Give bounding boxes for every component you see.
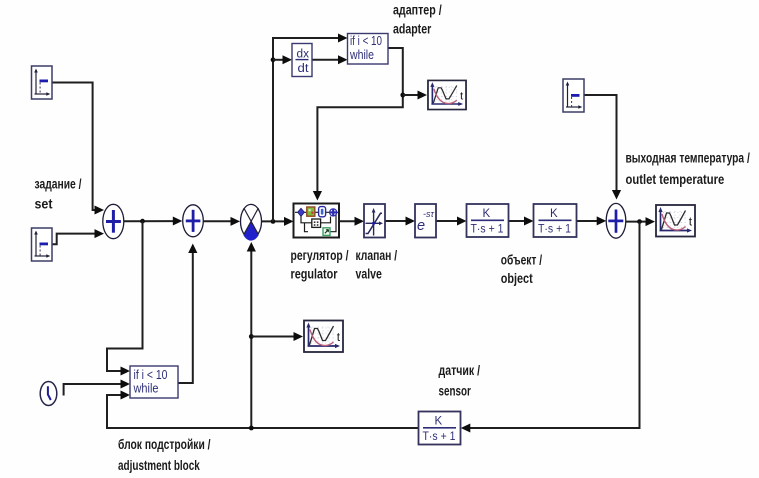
junction dot after multiplier — [271, 219, 276, 224]
svg-text:valve: valve — [356, 267, 383, 282]
wire: valve output to transport delay — [385, 217, 415, 226]
svg-text:задание /: задание / — [35, 177, 82, 192]
svg-text:sensor: sensor — [439, 384, 472, 399]
label: адаптер / adapter — [393, 3, 442, 37]
svg-text:K: K — [483, 208, 491, 220]
adjustment if-block (if i<10 / while) — [130, 366, 178, 398]
transport delay block e^-st — [415, 204, 436, 238]
svg-text:K: K — [550, 208, 558, 220]
right scope — [656, 205, 695, 237]
bottom scope — [304, 321, 343, 353]
wire: branch to dx/dt input — [273, 55, 292, 64]
junction dot at dx/dt branch — [271, 57, 276, 62]
wire: adapter if-block output to top scope and down to regulator top input — [313, 48, 403, 201]
junction dot on S1-S2 wire — [140, 219, 145, 224]
svg-text:выходная температура /: выходная температура / — [626, 151, 750, 166]
wire: riser from multiplier junction to adapter if-block input 1 — [273, 34, 348, 222]
top scope — [428, 80, 466, 109]
svg-text:датчик /: датчик / — [439, 363, 481, 378]
regulator subsystem block U1 — [294, 204, 340, 238]
valve saturation block — [364, 204, 385, 238]
wire: sum S1 output to sum S2 — [124, 217, 182, 226]
wire: branch to top scope — [403, 91, 427, 100]
sum S2 — [183, 205, 204, 237]
svg-text:regulator: regulator — [291, 267, 339, 282]
sensor TF K/(T·s+1) — [419, 412, 461, 445]
svg-text:if i < 10: if i < 10 — [134, 368, 168, 382]
step source 3 (outlet temperature disturbance) — [563, 79, 584, 112]
svg-text:блок подстройки /: блок подстройки / — [118, 437, 211, 452]
svg-text:T·s + 1: T·s + 1 — [423, 431, 456, 443]
wire: step source 1 to sum S1 upper input — [52, 83, 104, 215]
wire: regulator output to valve — [339, 217, 364, 226]
wire: dx/dt output to adapter if-block input 2 — [312, 55, 348, 64]
svg-text:outlet temperature: outlet temperature — [626, 172, 725, 187]
svg-text:if i < 10: if i < 10 — [350, 34, 382, 48]
svg-text:клапан /: клапан / — [356, 248, 398, 263]
svg-text:dx: dx — [297, 49, 310, 61]
wire: transport delay output to object TF1 — [436, 217, 467, 226]
svg-text:K: K — [435, 416, 443, 428]
wire: TF1 output to TF2 — [509, 217, 534, 226]
wire: feedback down from S3 junction to sensor input — [461, 222, 640, 433]
label: объект / object — [501, 253, 543, 287]
svg-text:адаптер /: адаптер / — [393, 3, 442, 18]
sum S3 — [606, 203, 626, 238]
svg-text:T·s + 1: T·s + 1 — [538, 224, 571, 236]
dx/dt derivative block — [292, 44, 312, 77]
wire: clock to adjustment block input 2 — [64, 380, 130, 396]
wire: adjustment block output up to sum S2 bottom input — [178, 244, 197, 384]
wire: step source 2 to sum S1 lower input — [52, 229, 104, 244]
junction dot on adapter output — [400, 93, 405, 98]
label: задание / set — [35, 177, 82, 212]
label: регулятор / regulator — [291, 248, 349, 282]
object TF1 K/(T·s+1) — [467, 204, 509, 237]
junction dot on feedback riser (scope branch) — [249, 334, 254, 339]
svg-text:регулятор /: регулятор / — [291, 248, 349, 263]
label: клапан / valve — [356, 248, 398, 282]
svg-text:-sτ: -sτ — [423, 209, 434, 219]
label: выходная температура / outlet temperature — [626, 151, 750, 188]
sum S1 — [103, 204, 124, 238]
wire: TF2 output to sum S3 — [577, 216, 607, 225]
wire: branch down from junction to adjustment block input 1 — [107, 221, 143, 375]
svg-text:adapter: adapter — [393, 22, 432, 37]
junction dot after sum S3 — [637, 219, 642, 224]
clock block — [40, 382, 57, 406]
svg-text:T·s + 1: T·s + 1 — [471, 224, 504, 236]
multiplier (blue sector) — [241, 204, 262, 240]
adapter if-block (if i<10 / while) — [348, 34, 389, 65]
wire: step source 3 down to sum S3 top input — [584, 95, 621, 200]
wire: feedback line from sensor output to adjustment block input 3 — [107, 391, 419, 429]
step source 1 (задание/set upper) — [32, 66, 53, 99]
step source 2 (задание/set lower) — [32, 228, 53, 261]
svg-text:adjustment block: adjustment block — [118, 458, 200, 473]
wire: branch to bottom scope — [251, 332, 303, 341]
wire: multiplier output to regulator with junction — [262, 217, 294, 226]
svg-text:object: object — [501, 271, 533, 286]
svg-text:объект /: объект / — [501, 253, 543, 268]
svg-text:while: while — [133, 382, 159, 396]
object TF2 K/(T·s+1) — [534, 204, 577, 237]
label: блок подстройки / adjustment block — [118, 437, 211, 473]
svg-text:while: while — [349, 48, 374, 62]
svg-text:set: set — [35, 197, 53, 212]
wire: sum S3 output to right scope — [626, 217, 655, 226]
wire: sum S2 output to multiplier — [203, 217, 240, 226]
svg-text:e: e — [417, 218, 425, 234]
svg-text:dt: dt — [298, 63, 310, 75]
junction dot on feedback line bottom — [249, 426, 254, 431]
wire: feedback branch up to multiplier bottom input — [247, 242, 256, 428]
label: датчик / sensor — [439, 363, 481, 399]
